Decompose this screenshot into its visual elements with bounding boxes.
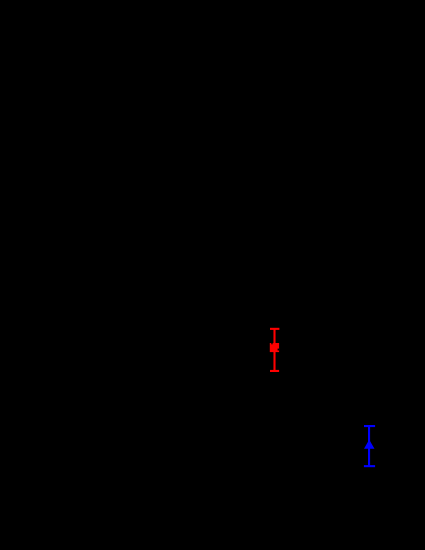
- blue errorbar bottom cap: [364, 465, 375, 467]
- blue errorbar series: vertical error line: [368, 426, 370, 466]
- red square marker (data point): [270, 343, 279, 352]
- black overlap notch at top edge of red square: [271, 343, 272, 344]
- black overlap notch at right edge of red square: [278, 349, 280, 351]
- blue errorbar top cap: [364, 425, 375, 427]
- red errorbar top cap: [270, 328, 279, 330]
- blue triangle-up marker (data point): [364, 440, 375, 449]
- red errorbar bottom cap: [270, 370, 279, 372]
- red errorbar series: vertical error line: [273, 329, 275, 371]
